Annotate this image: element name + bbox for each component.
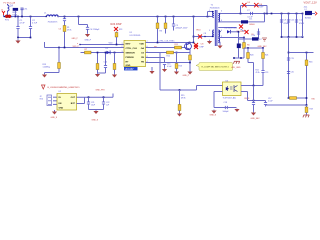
svg-text:VDD: VDD xyxy=(139,44,144,46)
ground opto2 xyxy=(234,109,239,113)
svg-text:CS: CS xyxy=(141,53,145,55)
junction bus CX1 xyxy=(21,16,23,18)
resistor R13 xyxy=(175,64,178,69)
resistor R1 xyxy=(63,26,66,32)
wire C15 top xyxy=(164,58,166,63)
wire fb horiz xyxy=(160,89,197,91)
resistor R14 xyxy=(189,55,192,60)
ground C4 xyxy=(85,33,90,38)
ground R8 xyxy=(112,73,117,78)
svg-text:R_COMP SEL SEE D NOTE 4: R_COMP SEL SEE D NOTE 4 xyxy=(202,67,230,69)
svg-text:B_LR03001SMBPM6_04SEP2015: B_LR03001SMBPM6_04SEP2015 xyxy=(48,87,81,89)
wire R2 down xyxy=(157,29,159,43)
junction x306 bot xyxy=(306,97,308,99)
wire c rail xyxy=(89,109,104,111)
junction aux xyxy=(238,31,240,33)
wire C17 down xyxy=(265,105,267,107)
wire C16 down xyxy=(253,105,255,112)
svg-text:GND_S: GND_S xyxy=(210,115,217,117)
AC plug J1 xyxy=(2,11,5,15)
svg-text:RT1: RT1 xyxy=(5,19,10,21)
junction rail x296 xyxy=(296,36,298,38)
svg-text:1000pF: 1000pF xyxy=(223,111,230,113)
junction cs div xyxy=(176,52,178,54)
ground earth aux xyxy=(233,61,239,63)
pin dot T1 aux1 xyxy=(219,31,220,32)
junction bias 1 xyxy=(247,47,249,49)
wire aux join xyxy=(234,57,244,59)
wire x302 vert xyxy=(302,14,304,38)
capacitor C11 xyxy=(287,20,290,22)
dnp mark R23 xyxy=(114,27,118,31)
junction x58 xyxy=(58,47,60,49)
resistor R9 xyxy=(96,64,99,70)
ground U2 caps xyxy=(93,110,98,114)
wire U2 out up xyxy=(112,94,114,98)
wire R21 top xyxy=(262,48,264,53)
svg-text:UCC287: UCC287 xyxy=(125,69,135,71)
wire R9 down xyxy=(97,70,99,74)
junction bus C2 xyxy=(30,16,32,18)
wire x78 right xyxy=(79,24,88,26)
svg-text:a: a xyxy=(77,43,78,45)
wire R19 gnd stub xyxy=(44,73,46,75)
capacitor C9 xyxy=(280,20,283,22)
junction VOUT x281 xyxy=(281,13,283,15)
wire C22 down xyxy=(103,104,105,109)
wire R8 down xyxy=(114,70,116,74)
svg-text:EN: EN xyxy=(59,103,62,105)
wire C22 top xyxy=(103,97,105,102)
wire J2 p1 xyxy=(53,96,57,98)
dnp mark R10 xyxy=(198,35,202,39)
svg-text:4: 4 xyxy=(221,30,222,32)
ground Q1 xyxy=(187,70,192,75)
wire vout sense vert xyxy=(288,37,290,98)
wire x97 down xyxy=(97,53,99,64)
capacitor C21 xyxy=(87,102,90,104)
wire R6 ext xyxy=(243,49,245,59)
wire C5 down xyxy=(173,26,175,30)
inductor L1 xyxy=(47,15,59,17)
svg-text:FB_S: FB_S xyxy=(245,98,250,100)
junction fb div xyxy=(179,89,181,91)
wire opto out hi xyxy=(241,85,263,87)
wire U1 comp xyxy=(146,57,165,59)
ground earth sym xyxy=(303,115,309,117)
svg-text:U2: U2 xyxy=(59,91,61,93)
svg-text:C9: C9 xyxy=(284,20,287,22)
capacitor C22 xyxy=(102,102,105,104)
svg-text:R19: R19 xyxy=(43,64,48,66)
junction bus x173 xyxy=(173,16,175,18)
wire opto low down xyxy=(213,92,215,108)
junction VOUT x266 xyxy=(266,13,268,15)
svg-text:R13: R13 xyxy=(179,66,182,68)
svg-text:C4 2200pF: C4 2200pF xyxy=(90,29,101,31)
svg-text:1: 1 xyxy=(209,10,210,12)
wire C21 down xyxy=(88,104,90,109)
diode D1 xyxy=(241,20,248,23)
junction hv x189 xyxy=(189,42,191,44)
ground R9 xyxy=(95,73,100,78)
wire C3 top xyxy=(64,17,66,19)
thermistor RT1 disk B xyxy=(8,15,11,18)
capacitor C18 xyxy=(225,106,227,109)
wire x247 down xyxy=(247,92,249,101)
transistor Q1 xyxy=(185,43,192,50)
svg-text:L2: L2 xyxy=(305,9,308,11)
pin VOUT xyxy=(315,12,317,16)
svg-text:T1: T1 xyxy=(211,5,214,7)
wire R20 top xyxy=(247,48,249,53)
wire C21 top xyxy=(88,97,90,102)
resistor R11 xyxy=(175,46,182,49)
wire sec gnd rail xyxy=(282,36,303,38)
wire C1 top xyxy=(17,17,19,27)
svg-text:C20: C20 xyxy=(291,72,294,74)
wire R3 top xyxy=(165,17,167,24)
wire bias rail xyxy=(244,47,263,49)
wire C17 top xyxy=(265,101,267,103)
junction hv x157 xyxy=(157,42,159,44)
wire C10 vert xyxy=(258,29,260,40)
wire C2 top xyxy=(30,17,32,27)
resistor R18 xyxy=(305,107,308,113)
wire J2 p3 xyxy=(53,103,57,105)
wire fuse to RT1 xyxy=(7,12,9,17)
wire D1 up xyxy=(264,14,266,22)
wire U2 out xyxy=(77,96,114,98)
wire U1 gnd xyxy=(151,67,153,71)
ground primary T1 xyxy=(207,40,212,44)
junction rail C1 xyxy=(17,37,19,39)
svg-text:0.1uF: 0.1uF xyxy=(167,66,172,68)
svg-text:4.7uF: 4.7uF xyxy=(32,23,38,25)
wire opto pullup xyxy=(253,63,255,86)
wire U1 pin2 xyxy=(45,47,125,49)
wire C5 top xyxy=(173,17,175,25)
capacitor C4 xyxy=(86,27,89,29)
capacitor C23 xyxy=(261,71,264,73)
pin dot RT1 right xyxy=(11,16,12,17)
op-amp U1 UCC28704 xyxy=(124,41,146,67)
wire C12 vert xyxy=(296,14,298,38)
wire x176 down xyxy=(176,53,178,64)
thermistor RT1 disk A xyxy=(5,15,8,18)
wire opto out lo xyxy=(241,91,248,93)
svg-text:R10: R10 xyxy=(197,30,202,32)
resistor R16 xyxy=(305,60,308,66)
svg-text:C8: C8 xyxy=(201,44,205,46)
capacitor C2 xyxy=(29,27,32,29)
transformer T1 primary winding lower xyxy=(213,30,214,37)
junction aux tap xyxy=(243,37,245,39)
wire x58 down xyxy=(58,48,60,63)
wire U2 bypass xyxy=(77,103,85,105)
svg-text:DNP: DNP xyxy=(260,7,265,9)
junction VOUT x302 xyxy=(302,13,304,15)
pin dot T1-2 xyxy=(212,36,213,37)
svg-text:C1: C1 xyxy=(20,20,24,22)
junction rail x281 xyxy=(281,36,283,38)
svg-text:R23: R23 xyxy=(119,29,122,31)
wire x78 down xyxy=(78,17,80,25)
svg-text:SENSOR: SENSOR xyxy=(126,53,136,55)
wire R6 down xyxy=(243,49,245,51)
svg-text:C7: C7 xyxy=(247,10,250,12)
wire pin2 stub up xyxy=(44,42,46,48)
wire dnp right vert xyxy=(266,6,268,14)
ground U1 xyxy=(149,71,154,74)
wire U1 cs xyxy=(146,52,191,54)
wire R3 down xyxy=(165,29,167,34)
svg-text:CTRL_CLK_SYNC: CTRL_CLK_SYNC xyxy=(159,41,176,43)
junction pin2 x64 xyxy=(64,47,66,49)
ground aux sym xyxy=(262,38,267,41)
wire U1 pin1 xyxy=(80,44,125,46)
wire R18 top xyxy=(306,105,308,107)
resistor R17 xyxy=(290,97,297,100)
wire primary bottom xyxy=(194,36,213,38)
dnp mark snub xyxy=(194,45,198,49)
wire Q1 source xyxy=(189,49,191,55)
svg-text:D7: D7 xyxy=(259,39,262,41)
ground R19 xyxy=(42,74,47,77)
resistor R3 xyxy=(164,23,167,29)
wire R21 down xyxy=(262,59,264,71)
wire fb up xyxy=(196,86,198,91)
wire bypass up xyxy=(84,97,86,103)
junction hv x193 xyxy=(193,42,195,44)
junction x253 xyxy=(253,100,255,102)
wire C4 top xyxy=(87,25,89,28)
svg-text:GND: GND xyxy=(59,107,64,109)
ground opto xyxy=(211,110,216,114)
svg-text:GND_S: GND_S xyxy=(92,120,99,122)
wire C11 vert xyxy=(288,14,290,38)
svg-text:C8: C8 xyxy=(204,33,207,35)
wire J2 p2 xyxy=(53,100,57,102)
wire R13 down xyxy=(176,69,178,71)
svg-text:VDD_P: VDD_P xyxy=(73,46,80,48)
wire aux tap xyxy=(220,37,244,39)
svg-text:750315371: 750315371 xyxy=(48,21,59,23)
op-amp U2 xyxy=(57,94,77,111)
resistor R15 xyxy=(178,105,181,111)
svg-text:GND_P: GND_P xyxy=(72,38,79,40)
wire T1 w2 stub2 xyxy=(213,35,214,37)
wire sense mid xyxy=(289,52,314,54)
capacitor C15 xyxy=(163,63,166,65)
ground T1 aux xyxy=(217,45,222,49)
svg-text:C23: C23 xyxy=(265,72,268,74)
transformer T1 core xyxy=(215,10,217,46)
svg-text:B540: B540 xyxy=(250,24,256,26)
svg-text:C21: C21 xyxy=(91,102,94,104)
svg-text:C19: C19 xyxy=(291,58,294,60)
wire fb bottom xyxy=(266,104,307,106)
svg-text:TCMT1107_A4x: TCMT1107_A4x xyxy=(223,97,237,100)
wire R15 top xyxy=(179,90,181,105)
wire T1 sec stub2 xyxy=(218,21,220,23)
wire D1 cathode xyxy=(248,21,265,23)
junction x306 xyxy=(306,52,308,54)
resistor R2 xyxy=(156,23,159,29)
svg-text:AXL_GND: AXL_GND xyxy=(232,66,241,69)
wire aux vert xyxy=(238,32,240,51)
svg-text:R15: R15 xyxy=(181,95,184,97)
svg-text:C18: C18 xyxy=(224,102,227,104)
wire divider vert xyxy=(306,53,308,106)
svg-text:3: 3 xyxy=(122,51,123,53)
svg-text:C2: C2 xyxy=(32,20,36,22)
ferrite bead L2 xyxy=(305,11,312,15)
resistor R19 xyxy=(58,63,61,69)
wire U1 fb xyxy=(146,62,191,64)
svg-text:OUT: OUT xyxy=(71,97,76,99)
junction D2 out xyxy=(114,52,116,54)
pin dot RT1 left xyxy=(4,16,5,17)
svg-text:R21: R21 xyxy=(265,55,268,57)
junction sense x52 xyxy=(288,52,290,54)
junction out c21 xyxy=(88,96,90,98)
svg-text:VOUT_12V: VOUT_12V xyxy=(304,1,318,5)
wire aux rail xyxy=(239,38,259,40)
ground U2 xyxy=(52,111,57,114)
wire C23 down xyxy=(262,73,264,86)
ground R15 xyxy=(177,112,182,117)
junction R22 xyxy=(116,44,118,46)
wire Q1 drain xyxy=(189,43,191,44)
wire C14 bot xyxy=(105,68,107,73)
varistor RV1 xyxy=(13,8,18,11)
svg-text:VDD: VDD xyxy=(109,43,114,45)
ground C16 xyxy=(251,111,256,116)
junction x105 xyxy=(105,52,107,54)
svg-text:C14: C14 xyxy=(104,62,107,64)
diode D3 xyxy=(227,30,230,33)
wire rc join xyxy=(98,72,106,74)
svg-text:750315445: 750315445 xyxy=(210,8,221,10)
wire R22 top xyxy=(116,32,118,33)
svg-text:2A: 2A xyxy=(10,5,13,8)
svg-text:GND_PRI: GND_PRI xyxy=(96,90,105,92)
wire R1 down xyxy=(64,32,66,48)
wire R22 down xyxy=(116,37,118,45)
wire C9 vert xyxy=(281,14,283,38)
svg-text:PWRGD: PWRGD xyxy=(126,57,135,59)
svg-text:GND_P: GND_P xyxy=(183,75,190,77)
wire dnp left vert xyxy=(240,6,242,14)
wire T1 pin1 xyxy=(208,11,213,13)
resistor R8 xyxy=(113,64,116,70)
transformer T1 secondary winding xyxy=(218,14,219,22)
dnp mark R5 xyxy=(239,25,243,29)
svg-text:GA: GA xyxy=(141,47,145,50)
capacitor C7 xyxy=(251,12,253,15)
wire T1 w2 stub xyxy=(213,30,214,32)
note callout xyxy=(196,63,233,71)
pin dot L1 right xyxy=(58,16,59,17)
wire T1 pin1 up xyxy=(207,12,209,17)
junction bus x165 xyxy=(165,16,167,18)
svg-text:R24 DNP: R24 DNP xyxy=(111,22,122,26)
svg-text:49.9k: 49.9k xyxy=(256,72,260,74)
svg-text:BYP: BYP xyxy=(71,103,76,105)
svg-text:R7: R7 xyxy=(85,49,88,51)
svg-text:C3: C3 xyxy=(59,29,62,31)
junction cs sense xyxy=(189,62,191,64)
diode D2 xyxy=(107,51,111,54)
svg-text:1uF: 1uF xyxy=(106,105,110,107)
wire C2 bottom xyxy=(30,29,32,38)
wire R19 down xyxy=(58,69,60,73)
logo mark xyxy=(42,85,46,89)
fuse F1 xyxy=(8,4,10,12)
wire CX1 to bus xyxy=(21,10,23,17)
dnp mark D6 xyxy=(254,3,258,7)
junction clamp x193 y36 xyxy=(193,36,195,38)
capacitor C16 xyxy=(252,103,255,105)
wire RV1 to bus xyxy=(14,11,16,17)
svg-text:2: 2 xyxy=(122,46,123,48)
wire T1 aux gnd xyxy=(219,42,221,45)
U1 pin numbers xyxy=(122,41,148,63)
wire T1 aux stub2 xyxy=(218,37,220,39)
resistor R7 xyxy=(85,51,92,54)
capacitor C20 xyxy=(287,72,290,74)
pin dot pin1 xyxy=(79,44,80,45)
svg-text:1.00Meg: 1.00Meg xyxy=(43,67,50,69)
wire x114 down xyxy=(114,53,116,64)
junction bus clamp xyxy=(193,16,195,18)
capacitor C5 xyxy=(172,24,175,26)
wire R6 top xyxy=(243,38,245,43)
wire VOUT rail xyxy=(220,13,303,15)
wire dnp stub xyxy=(220,27,237,29)
svg-text:5V0: 5V0 xyxy=(40,99,43,101)
U1 pin labels xyxy=(126,44,145,68)
svg-text:R16: R16 xyxy=(309,62,312,64)
junction rail x302 xyxy=(302,36,304,38)
capacitor C1 xyxy=(16,27,19,29)
wire bulk gnd rail xyxy=(18,37,31,39)
dnp mark C8 xyxy=(194,43,198,47)
junction bus T1 xyxy=(207,16,209,18)
wire U1 pin3 xyxy=(81,52,125,54)
wire R19 corner xyxy=(45,72,60,74)
ground C15 xyxy=(162,68,167,73)
wire T1 w1 stub xyxy=(213,11,214,13)
wire D1 anode xyxy=(220,21,241,23)
diode D7 xyxy=(252,37,259,40)
svg-text:4.7uF: 4.7uF xyxy=(20,23,26,25)
svg-text:D2: D2 xyxy=(106,48,109,50)
junction aux join l xyxy=(233,57,235,59)
wire T1 sec stub xyxy=(218,13,220,15)
svg-text:U1: U1 xyxy=(130,32,133,34)
pin dot L1 left xyxy=(46,16,47,17)
svg-text:R20: R20 xyxy=(250,55,253,57)
resistor R20 xyxy=(247,53,250,59)
U1 part number highlight xyxy=(124,67,138,70)
transformer T1 aux winding xyxy=(218,30,219,43)
wire C15 down xyxy=(164,65,166,68)
svg-text:GND_S: GND_S xyxy=(51,117,58,119)
zener D4 xyxy=(237,44,241,49)
svg-text:R6: R6 xyxy=(247,45,250,47)
